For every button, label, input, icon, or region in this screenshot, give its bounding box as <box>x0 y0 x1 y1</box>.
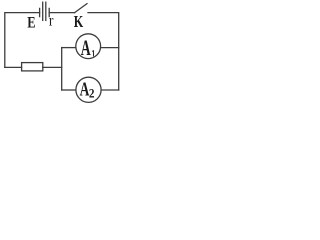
short plate left <box>39 8 41 16</box>
wire resistor to mid node <box>43 66 62 68</box>
wire A1 branch right stub <box>101 47 119 49</box>
long plate <box>45 2 47 20</box>
svg-text:A: A <box>81 36 92 60</box>
battery E r <box>40 2 50 20</box>
wire switch to top-right corner <box>88 13 119 90</box>
wire A2 branch left stub <box>62 89 76 91</box>
wire resistor row <box>5 66 22 68</box>
svg-text:r: r <box>49 12 54 29</box>
long plate <box>42 2 44 20</box>
svg-text:2: 2 <box>89 86 95 101</box>
wire top-left from corner to battery <box>5 13 40 68</box>
svg-text:K: K <box>74 13 84 31</box>
short plate right <box>48 8 50 16</box>
ammeter A2 circle <box>76 77 101 102</box>
subscript 1 <box>92 50 93 56</box>
ammeter A1 circle <box>76 34 101 59</box>
wire A1 branch left stub <box>62 47 76 49</box>
wire A2 branch right stub <box>101 89 119 91</box>
resistor R body <box>22 63 43 71</box>
svg-text:E: E <box>27 14 35 32</box>
switch K blade <box>75 4 87 13</box>
wire battery to switch <box>49 12 74 14</box>
wire mid vertical node <box>61 48 63 90</box>
